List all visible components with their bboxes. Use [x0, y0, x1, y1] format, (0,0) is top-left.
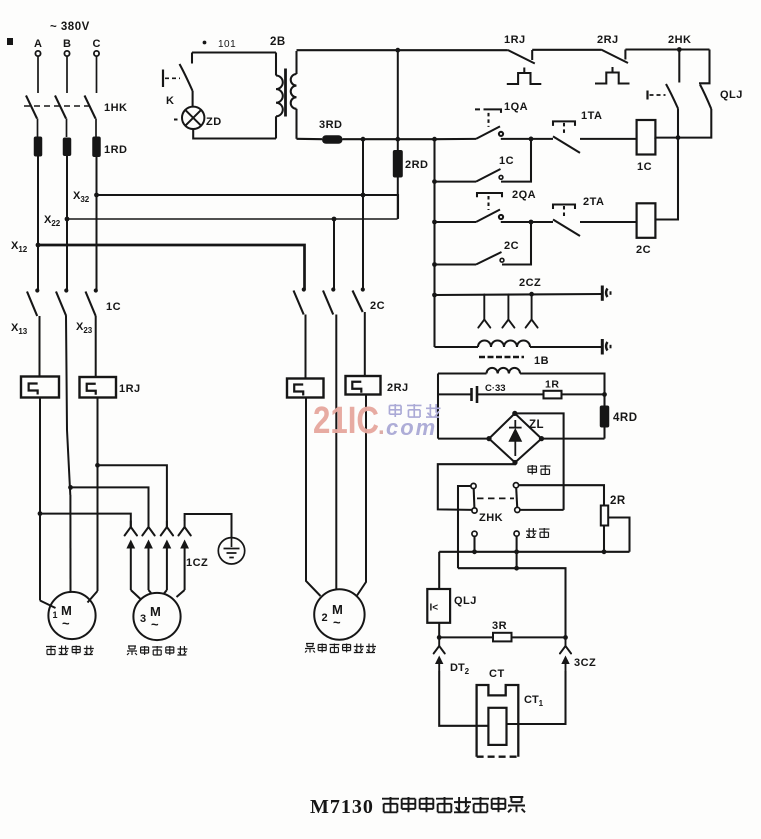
svg-text:ZHK: ZHK — [479, 512, 503, 524]
1CZ earth to 3M frame — [177, 590, 185, 597]
svg-text:QLJ: QLJ — [454, 595, 477, 607]
chuck yoke CT — [477, 685, 519, 757]
connector 1B mate — [602, 339, 610, 355]
wire 4RD down — [603, 428, 605, 439]
phase A terminal — [35, 51, 40, 56]
3CZ plug — [561, 656, 569, 672]
svg-text:2C: 2C — [504, 240, 519, 252]
contact xihe left — [472, 531, 477, 536]
ZL left vertex wire — [438, 438, 489, 440]
bus1-bus2 stub — [516, 552, 518, 568]
fuse 1RD c — [92, 137, 101, 158]
thermal relay 1RJ element a — [21, 377, 59, 398]
svg-text:~: ~ — [62, 616, 70, 631]
motor 3M — [133, 593, 180, 640]
svg-text:1QA: 1QA — [504, 101, 528, 113]
phase A lead — [37, 57, 39, 94]
3CZ wire to chuck coil — [507, 671, 566, 724]
chuck coil CT1 — [488, 708, 506, 745]
1CZ socket — [142, 521, 154, 536]
switch 1HK blade — [26, 96, 37, 119]
wire 2C-a to 2RJ — [305, 315, 307, 379]
caption yeyabeng-diandongji (hydraulic pump motor) — [305, 644, 376, 653]
caption lengquebeng-dianji (coolant pump motor) — [127, 646, 187, 655]
wire X32 to 2RD — [97, 195, 399, 219]
svg-text:A: A — [34, 38, 42, 50]
contactor 2C contact a — [294, 287, 306, 314]
QLJ fixed lead — [699, 50, 710, 84]
svg-text:~: ~ — [151, 617, 159, 632]
auxiliary contact 1C blade — [476, 169, 501, 182]
fuse 3RD — [322, 135, 343, 144]
bus dot 2C aux — [432, 262, 437, 267]
junction 3R right — [563, 635, 568, 640]
svg-text:1C: 1C — [499, 155, 514, 167]
coil 1C right stub — [654, 138, 656, 139]
transformer 1B primary winding — [478, 341, 530, 348]
svg-text:C·33: C·33 — [485, 383, 506, 394]
xihe left stub — [473, 536, 475, 551]
wire 2C-c to 2RJ — [364, 312, 366, 376]
svg-text:1TA: 1TA — [581, 110, 602, 122]
bus1 dot b — [514, 549, 519, 554]
bus2 dot — [514, 566, 519, 571]
junction 2CZ — [529, 292, 534, 297]
bus dot 2CZ row — [432, 293, 437, 298]
svg-text:ZL: ZL — [529, 419, 544, 431]
svg-text:K: K — [166, 95, 174, 107]
2CZ pole c — [526, 294, 538, 327]
wire 1C-a to 1RJ — [39, 316, 41, 377]
button 1TA — [553, 121, 580, 152]
caption xihe (attract) — [526, 528, 550, 537]
switch K actuator — [162, 70, 164, 88]
junction row1/1C-aux — [529, 137, 534, 142]
bus1 dot c — [602, 549, 607, 554]
QLJ to 3R row — [438, 623, 440, 638]
control top wire left — [297, 49, 508, 51]
transformer 2B core — [284, 69, 287, 117]
fuse 1RD b — [63, 138, 72, 157]
switch K blade — [180, 64, 193, 91]
mark 101 dot — [203, 41, 207, 45]
motor 1M — [48, 592, 95, 639]
overload contact 2RJ — [595, 50, 630, 84]
wire 3RD to bus — [343, 138, 435, 140]
wire B to 1M — [69, 495, 71, 592]
contactor 2C contact b — [323, 287, 335, 314]
wire top to 2RD — [397, 50, 399, 150]
transformer 1B secondary winding — [487, 368, 521, 374]
junction 2RD top — [395, 48, 400, 53]
2C aux to row2 — [502, 222, 531, 265]
junction X22/2C-b — [332, 217, 337, 222]
demag left vertical upper — [437, 374, 439, 439]
2CZ row wire — [435, 294, 602, 295]
wire to 2M left — [306, 398, 321, 597]
ZHK right-top to 2R — [519, 485, 604, 505]
row1 left segment — [435, 138, 477, 140]
DT2 wire to chuck coil — [439, 671, 488, 726]
row1 mid segment — [501, 138, 553, 140]
transformer 2B primary — [276, 53, 283, 139]
1B primary right wire — [530, 346, 602, 348]
1CZ c to 3M — [164, 590, 167, 594]
row2 to coil 2C — [580, 221, 637, 223]
transformer 2B secondary — [291, 51, 297, 139]
caption tuici (demagnetize) — [528, 465, 550, 474]
control top wire mid — [532, 49, 601, 51]
switch ZHK left pole — [471, 483, 477, 513]
DT2 socket — [434, 637, 445, 653]
1B secondary left wire — [438, 372, 487, 374]
1CZ b to 3M — [149, 590, 152, 593]
1CZ plug — [163, 540, 172, 591]
svg-text:3R: 3R — [492, 620, 507, 632]
lamp loop top — [192, 51, 276, 53]
svg-text:4RD: 4RD — [613, 412, 638, 424]
switch 2QA — [476, 193, 503, 222]
resistor 2R — [601, 506, 608, 526]
current relay QLJ — [427, 589, 450, 623]
svg-text:M7130: M7130 — [310, 796, 374, 818]
wire 2B to 3RD — [297, 138, 323, 140]
tap A to 1CZ — [40, 514, 131, 527]
svg-text:ZD: ZD — [206, 116, 222, 128]
phase B vertical — [66, 156, 68, 290]
ZL right vertex wire — [542, 438, 605, 440]
junction 3R left — [437, 635, 442, 640]
wire 1HK to 1RD — [95, 119, 97, 138]
svg-text:1HK: 1HK — [104, 102, 128, 114]
node X32 junction — [94, 193, 99, 198]
caption shalun-dianji (grinding wheel motor) — [46, 646, 94, 655]
2CZ pole a — [478, 295, 490, 328]
svg-text:2HK: 2HK — [668, 34, 692, 46]
resistor 3R — [493, 633, 512, 642]
switch 1HK blade — [85, 96, 96, 119]
tap C junction — [95, 463, 100, 468]
contact xihe right — [514, 531, 519, 536]
wire X32 down to 2C-c — [362, 195, 364, 289]
svg-text:2R: 2R — [610, 495, 626, 507]
junction 4RD top — [602, 392, 607, 397]
wire X22 down to 2C-b — [333, 219, 335, 289]
control top wire right — [625, 48, 709, 50]
phase B terminal — [64, 51, 69, 56]
wire A to 1M — [39, 398, 41, 601]
svg-text:2QA: 2QA — [512, 189, 536, 201]
svg-text:2C: 2C — [370, 300, 385, 312]
2HK upper lead — [678, 50, 680, 83]
contactor 1C contact c — [86, 288, 98, 316]
svg-text:1RJ: 1RJ — [504, 34, 526, 46]
ZL right vertex — [539, 436, 544, 441]
contactor 2C contact c — [353, 287, 365, 312]
xihe right stub — [516, 536, 518, 552]
2HK output to 2C coil — [655, 109, 678, 220]
phase A vertical — [37, 157, 39, 290]
wire X22 — [67, 218, 398, 220]
svg-text:CT: CT — [489, 668, 505, 680]
1CZ plug — [180, 540, 189, 591]
earth wire — [185, 514, 232, 537]
thermal relay 1RJ element c — [80, 377, 117, 398]
svg-text:101: 101 — [218, 39, 236, 50]
1HK dashed link — [24, 105, 90, 107]
node X12 junction — [36, 243, 41, 248]
node X22 junction — [65, 217, 70, 222]
svg-text:2RD: 2RD — [405, 159, 429, 171]
ZHK left-top to bus — [458, 486, 471, 568]
1CZ socket — [125, 521, 137, 536]
switch 1HK blade — [55, 96, 66, 119]
junction 2HK row1 — [676, 135, 681, 140]
ZHK coupling dashes — [477, 497, 514, 499]
lamp loop left upper — [191, 53, 193, 64]
watermark dianziwang — [389, 404, 440, 417]
3CZ socket — [560, 637, 571, 653]
svg-text:QLJ: QLJ — [720, 89, 743, 101]
auxiliary contact 2C blade — [476, 252, 502, 265]
bus dot row2 — [432, 220, 437, 225]
1CZ socket — [161, 521, 173, 536]
svg-text:2: 2 — [322, 612, 328, 624]
1C aux left segment — [435, 181, 477, 183]
svg-text:2B: 2B — [270, 36, 286, 48]
wire 1R to 4RD — [562, 393, 605, 395]
1B primary left wire — [435, 346, 479, 348]
svg-text:~ 380V: ~ 380V — [50, 21, 90, 33]
1B secondary right wire — [520, 374, 604, 395]
wire K to ZD — [192, 91, 194, 107]
junction X32/2C-c — [361, 193, 366, 198]
3R left wire — [439, 636, 493, 638]
phase C lead — [96, 57, 98, 94]
1C aux to row1 — [501, 139, 531, 182]
scan tick left of ZD — [174, 119, 178, 121]
svg-text:3CZ: 3CZ — [574, 657, 596, 669]
wire bus1 to QLJ — [438, 552, 440, 589]
svg-text:1RD: 1RD — [104, 144, 128, 156]
svg-text:1R: 1R — [545, 379, 559, 391]
2C aux left segment — [435, 263, 477, 265]
row1 to coil 1C — [580, 138, 637, 140]
switch 1QA — [475, 109, 503, 138]
tap A junction — [38, 511, 43, 516]
ZL top to ZHK right-bottom — [515, 413, 564, 510]
1CZ socket — [178, 521, 190, 536]
bridge rectifier ZL — [489, 413, 542, 462]
wire 3RD junction down — [362, 139, 364, 195]
transformer 1B core — [479, 356, 524, 359]
ZL bottom vertex — [512, 460, 517, 465]
tap B junction — [68, 485, 73, 490]
fuse 4RD — [600, 406, 610, 428]
svg-text:1C: 1C — [637, 161, 652, 173]
ZL bottom to ZHK left-bottom — [438, 463, 515, 510]
wire C to 1M — [97, 398, 99, 592]
switch ZHK right pole — [513, 483, 520, 513]
thermal relay 2RJ element c — [346, 376, 381, 395]
phase C vertical — [96, 157, 98, 290]
ZL top vertex — [512, 411, 517, 416]
QLJ output to row1 — [655, 109, 711, 138]
wire C slant 1M — [88, 591, 98, 603]
svg-text:1RJ: 1RJ — [119, 383, 141, 395]
contact QLJ blade — [700, 85, 711, 110]
svg-text:C: C — [93, 38, 101, 50]
row2 mid segment — [501, 221, 553, 223]
phase B lead — [66, 57, 68, 94]
svg-text:~: ~ — [333, 615, 341, 630]
demag bus1 — [439, 551, 629, 553]
1CZ plug — [144, 540, 153, 591]
overload contact 1RJ — [507, 50, 542, 84]
ZHK right-bottom wire — [520, 509, 564, 511]
svg-text:B: B — [63, 38, 71, 50]
svg-text:3RD: 3RD — [319, 119, 343, 131]
2CZ pole b — [502, 294, 514, 327]
row2 left segment — [435, 221, 477, 223]
contactor 1C contact a — [27, 288, 39, 316]
svg-text:1: 1 — [53, 610, 58, 620]
signal lamp ZD — [182, 107, 204, 129]
svg-text:2C: 2C — [636, 244, 651, 256]
DT2 plug — [435, 656, 443, 672]
thermal relay 2RJ element a — [287, 379, 324, 398]
connector 2CZ mate — [602, 286, 610, 301]
junction 3RD out — [361, 137, 366, 142]
fuse 2RD — [393, 150, 403, 178]
wire A slant 1M — [40, 601, 56, 609]
contactor 1C contact b — [56, 288, 68, 316]
svg-text:1CZ: 1CZ — [186, 557, 208, 569]
motor 2M — [314, 589, 364, 639]
wire to 2M right — [357, 395, 366, 596]
2R bottom wire — [603, 526, 605, 552]
1CZ a to 3M — [131, 590, 141, 600]
wire 2RD to X22 — [397, 178, 399, 220]
svg-text:2RJ: 2RJ — [387, 382, 409, 394]
svg-text:1C: 1C — [106, 301, 121, 313]
phase B wire to motor branch — [66, 316, 70, 495]
button 2TA — [553, 205, 580, 237]
svg-text:21IC: 21IC — [313, 400, 379, 442]
junction 2RD cross — [395, 137, 400, 142]
watermark 21IC — [313, 400, 437, 442]
wire 2C-b to 2M — [335, 315, 337, 591]
wire 1C-c to 1RJ — [95, 316, 97, 377]
2R side loop — [608, 518, 629, 552]
3R right wire — [512, 636, 566, 638]
scan speck — [7, 38, 13, 45]
contactor coil 1C — [637, 120, 656, 155]
tap C to 1CZ — [98, 465, 167, 527]
wire 1HK to 1RD — [37, 119, 39, 138]
wire to 4RD — [603, 394, 605, 405]
resistor 1R — [544, 391, 562, 399]
bus dot row1 — [432, 137, 437, 142]
svg-text:.: . — [378, 413, 385, 440]
svg-text:3: 3 — [140, 613, 146, 625]
contactor coil 2C — [637, 203, 656, 238]
svg-text:I<: I< — [430, 603, 439, 614]
tap B to 1CZ — [71, 487, 149, 527]
wire cap to 1R — [478, 393, 544, 395]
switch 2HK blade — [666, 84, 678, 109]
1CZ plug — [126, 540, 135, 591]
capacitor C-33 — [438, 386, 477, 403]
svg-text:2CZ: 2CZ — [519, 277, 541, 289]
bus1 dot a — [472, 549, 477, 554]
svg-text:2TA: 2TA — [583, 196, 604, 208]
fuse 1RD a — [34, 137, 43, 157]
title hanzi — [382, 797, 525, 812]
bus dot 1C aux — [432, 179, 437, 184]
wire X12 to 2C-a — [38, 245, 305, 290]
control bus vertical — [433, 139, 435, 347]
svg-text:com: com — [386, 415, 437, 440]
junction row2/2C-aux — [529, 220, 534, 225]
protective earth symbol — [218, 538, 244, 564]
phase C terminal — [94, 51, 99, 56]
svg-text:1B: 1B — [534, 355, 549, 367]
switch 2HK actuator — [646, 91, 648, 100]
lamp loop bottom — [193, 129, 276, 139]
svg-text:2RJ: 2RJ — [597, 34, 619, 46]
junction 2HK — [677, 47, 682, 52]
ZL left vertex — [486, 436, 491, 441]
demag bus2 — [458, 568, 566, 637]
wire 1HK to 1RD — [66, 119, 68, 138]
